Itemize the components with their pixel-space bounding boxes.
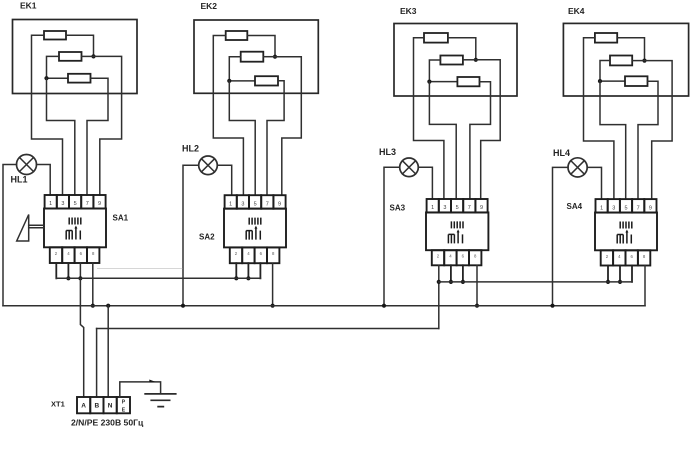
wire node J2a to SA2 pin 9 <box>275 57 301 196</box>
svg-text:1: 1 <box>600 205 603 211</box>
resistor EK4.R2 <box>610 56 632 66</box>
junction SA1 stub 2 on bus A <box>66 276 70 280</box>
wire HL2 to neutral bus N <box>183 165 199 305</box>
junction node J1a (R1-R2) <box>91 54 95 58</box>
lamp HL3 <box>400 158 419 177</box>
SA1 top pin numbers 1 3 5 7 9 <box>49 201 101 207</box>
junction node J3b (R2-R3) <box>427 80 431 84</box>
SA4 top pin numbers 1 3 5 7 9 <box>600 205 652 211</box>
resistor EK1.R2 <box>59 52 82 61</box>
wire HL2 to SA2 pin 1 <box>217 165 231 195</box>
switch SA1 body <box>44 209 106 248</box>
junction HL3 on neutral bus <box>382 304 386 308</box>
junction HL4 on neutral bus <box>550 304 554 308</box>
resistor EK2.R1 <box>226 31 248 40</box>
svg-text:XT1: XT1 <box>51 400 65 409</box>
svg-text:5: 5 <box>74 201 77 207</box>
junction SA2 stub 2 on bus A <box>246 276 250 280</box>
wire phase bus A to XT1:A <box>80 278 83 397</box>
wire HL1 to SA1 pin 1 <box>37 165 51 196</box>
svg-text:7: 7 <box>266 201 269 207</box>
svg-text:3: 3 <box>443 205 446 211</box>
SA4 cam-position marks (lower) with arrow <box>617 232 631 244</box>
junction SA2 neutral <box>271 304 275 308</box>
wire phase-B feeder to XT1:B <box>96 329 98 398</box>
svg-text:9: 9 <box>649 205 652 211</box>
svg-text:HL2: HL2 <box>182 144 199 154</box>
terminal block XT1 <box>77 397 130 413</box>
junction SA1 neutral <box>91 304 95 308</box>
svg-text:SA1: SA1 <box>113 214 129 223</box>
junction HL2 on neutral bus <box>181 304 185 308</box>
svg-text:HL4: HL4 <box>553 148 570 158</box>
wire EK1.R1 left lead to SA1 pin 3 <box>32 35 63 195</box>
wire SA4 pin 4 stub to neutral bus end <box>644 266 646 306</box>
SA1 cam-position marks (upper) <box>69 218 81 225</box>
wire EK4.R2 left lead to node J4b <box>600 61 625 82</box>
arrow mark on PE conductor <box>149 380 155 383</box>
junction SA3 stub 3 on bus B <box>461 280 465 284</box>
wire EK1.R2 right lead to node J1a <box>82 55 94 57</box>
SA2 bottom pin numbers <box>235 251 275 256</box>
wire neutral bus to XT1:N <box>107 306 109 397</box>
SA3 top terminal row (pins 1,3,5,7,9) <box>427 199 488 213</box>
wire node J2b to SA2 pin 5 <box>229 81 255 195</box>
wire HL1 to neutral bus N <box>3 165 17 306</box>
wire SA3 pin stubs to phase bus B <box>451 265 463 282</box>
wire EK3.R2 right lead to node J3a <box>463 59 476 61</box>
switch SA2 body <box>224 209 286 248</box>
svg-text:9: 9 <box>480 205 483 211</box>
svg-text:1: 1 <box>431 205 434 211</box>
svg-text:N: N <box>108 403 113 410</box>
SA3 bottom terminal row <box>432 250 482 265</box>
phase-B feeder wire to XT1:B <box>97 328 439 330</box>
XT1 terminal letters <box>81 403 113 410</box>
SA1 bottom pin numbers <box>55 251 95 256</box>
ghost line artifact <box>97 267 183 269</box>
junction SA2 stub 1 on bus A <box>234 276 238 280</box>
svg-text:SA3: SA3 <box>390 204 406 213</box>
junction SA4 stub 2 on bus B <box>618 280 622 284</box>
wire SA3 pin 1 stub down to phase-B feeder <box>438 265 440 328</box>
wire EK2.R1 left lead to SA2 pin 3 <box>213 36 243 196</box>
junction node J2a (R1-R2) <box>273 55 277 59</box>
svg-text:HL3: HL3 <box>379 147 396 157</box>
resistor EK3.R1 <box>424 33 448 43</box>
wire HL4 to SA4 pin 1 <box>587 167 601 199</box>
SA1 cam-position marks (lower) with arrow <box>66 228 80 240</box>
resistor EK4.R1 <box>595 33 617 43</box>
svg-text:5: 5 <box>624 205 627 211</box>
wire EK2.R1 right lead to node J2a <box>247 36 275 57</box>
SA3 bottom pin numbers <box>437 254 477 259</box>
wire EK1.R2 left lead to node J1b <box>47 56 69 78</box>
wire node J3a to SA3 pin 9 <box>476 60 500 199</box>
wire XT1:PE to ground <box>120 382 161 397</box>
SA2 cam-position marks (upper) <box>249 218 261 225</box>
wire node J1a to SA1 pin 9 <box>94 56 122 195</box>
wire EK2.R3 right lead to SA2 pin 7 <box>267 81 284 195</box>
heater block EK3 enclosure <box>394 24 517 97</box>
SA4 bottom pin numbers <box>606 254 646 259</box>
svg-text:7: 7 <box>637 205 640 211</box>
SA2 top pin numbers 1 3 5 7 9 <box>229 201 281 207</box>
junction SA3 stub 2 on bus B <box>449 280 453 284</box>
SA3 cam-position marks (lower) with arrow <box>448 231 462 243</box>
resistor EK1.R3 <box>68 74 91 83</box>
resistor EK1.R1 <box>44 31 66 40</box>
wire EK4.R3 right lead to SA4 pin 7 <box>638 81 658 199</box>
SA2 bottom terminal row <box>230 247 280 263</box>
svg-text:SA4: SA4 <box>567 202 583 211</box>
svg-text:EK1: EK1 <box>20 1 37 11</box>
svg-text:EK2: EK2 <box>201 1 218 11</box>
junction node J4a (R1-R2) <box>642 59 646 63</box>
svg-text:1: 1 <box>229 201 232 207</box>
wire node J1b to SA1 pin 5 <box>47 78 75 195</box>
SA1 bottom terminal row <box>50 247 100 263</box>
phase bus A (SA1-SA2) <box>56 277 260 279</box>
resistor EK3.R2 <box>440 56 463 65</box>
wire SA4 pin stubs to phase bus B <box>608 266 632 282</box>
resistor EK2.R2 <box>241 52 264 62</box>
wire HL3 to SA3 pin 1 <box>418 167 432 199</box>
wire EK4.R2 right lead to node J4a <box>632 60 644 62</box>
junction node J4b (R2-R3) <box>598 79 602 83</box>
svg-text:7: 7 <box>468 205 471 211</box>
ground <box>144 394 176 407</box>
svg-text:SA2: SA2 <box>199 233 215 242</box>
svg-text:EK3: EK3 <box>400 6 417 16</box>
resistor EK2.R3 <box>255 76 278 85</box>
wire SA1 pin stub to XT1:A drop <box>79 263 81 278</box>
SA1 handle (manual drive) <box>17 215 29 242</box>
heater block EK1 enclosure <box>13 20 138 94</box>
phase bus B (SA3-SA4) <box>439 281 632 283</box>
svg-text:5: 5 <box>456 205 459 211</box>
svg-text:9: 9 <box>98 201 101 207</box>
wire SA1 pin stubs to phase bus A <box>56 263 68 278</box>
SA2 top terminal row (pins 1,3,5,7,9) <box>225 195 286 209</box>
svg-text:9: 9 <box>278 201 281 207</box>
switch SA4 body <box>595 213 657 251</box>
wire EK2.R2 left lead to node J2b <box>229 57 255 81</box>
wire HL3 to neutral bus N <box>384 167 400 305</box>
wire SA2 pin 4 stub to neutral bus <box>272 263 274 306</box>
junction node J2b (R2-R3) <box>227 79 231 83</box>
neutral bus N <box>3 305 645 307</box>
wire node J4a to SA4 pin 9 <box>645 61 673 200</box>
wire EK3.R1 right lead to node J3a <box>448 38 476 60</box>
lamp HL2 <box>199 156 218 175</box>
junction SA1 stub 3 on bus A <box>78 276 82 280</box>
wire EK1.R1 right lead to node J1a <box>66 35 94 56</box>
SA4 bottom terminal row <box>601 250 651 265</box>
svg-text:7: 7 <box>86 201 89 207</box>
svg-text:5: 5 <box>254 201 257 207</box>
svg-text:3: 3 <box>61 201 64 207</box>
SA3 cam-position marks (upper) <box>451 221 463 228</box>
svg-text:HL1: HL1 <box>11 175 28 185</box>
lamp HL1 <box>17 155 37 175</box>
junction node J3a (R1-R2) <box>474 58 478 62</box>
heater block EK4 enclosure <box>563 23 688 96</box>
wire SA2 pin stubs to phase bus A <box>236 263 260 278</box>
svg-text:2/N/PE 230В 50Гц: 2/N/PE 230В 50Гц <box>71 418 144 428</box>
wire EK1.R3 right lead to SA1 pin 7 <box>87 78 108 195</box>
svg-text:1: 1 <box>49 201 52 207</box>
SA4 top terminal row (pins 1,3,5,7,9) <box>596 199 657 213</box>
svg-text:EK4: EK4 <box>568 6 585 16</box>
junction SA3 neutral <box>475 304 479 308</box>
heater block EK2 enclosure <box>194 20 318 93</box>
wire node J4b to SA4 pin 5 <box>600 81 626 199</box>
svg-text:3: 3 <box>612 205 615 211</box>
SA3 top pin numbers 1 3 5 7 9 <box>431 205 483 211</box>
SA1 top terminal row (pins 1,3,5,7,9) <box>45 195 106 209</box>
svg-text:3: 3 <box>241 201 244 207</box>
resistor EK3.R3 <box>457 77 479 86</box>
svg-text:A: A <box>81 403 86 410</box>
wire EK3.R3 right lead to SA3 pin 7 <box>470 82 491 199</box>
wire EK4.R1 right lead to node J4a <box>617 38 644 61</box>
wire SA1 pin 4 stub to neutral bus <box>92 263 94 306</box>
junction neutral to XT1:N <box>106 304 110 308</box>
resistor EK4.R3 <box>625 76 648 86</box>
wire HL4 to neutral bus N <box>553 167 569 305</box>
junction SA4 stub 1 on bus B <box>606 280 610 284</box>
junction node J1b (R2-R3) <box>44 76 48 80</box>
wire node J3b to SA3 pin 5 <box>429 82 456 199</box>
wire EK4.R1 left lead to SA4 pin 3 <box>584 38 614 199</box>
switch SA3 body <box>426 212 488 250</box>
SA4 cam-position marks (upper) <box>620 222 632 229</box>
wire SA3 pin 4 stub to neutral bus <box>476 265 478 305</box>
wire EK3.R2 left lead to node J3b <box>429 60 457 82</box>
junction SA3 stub 1 on bus B <box>437 280 441 284</box>
wire EK2.R2 right lead to node J2a <box>263 56 275 58</box>
SA2 cam-position marks (lower) with arrow <box>246 228 260 240</box>
wire EK3.R1 left lead to SA3 pin 3 <box>414 38 444 199</box>
svg-text:B: B <box>95 403 100 410</box>
lamp HL4 <box>568 158 587 177</box>
